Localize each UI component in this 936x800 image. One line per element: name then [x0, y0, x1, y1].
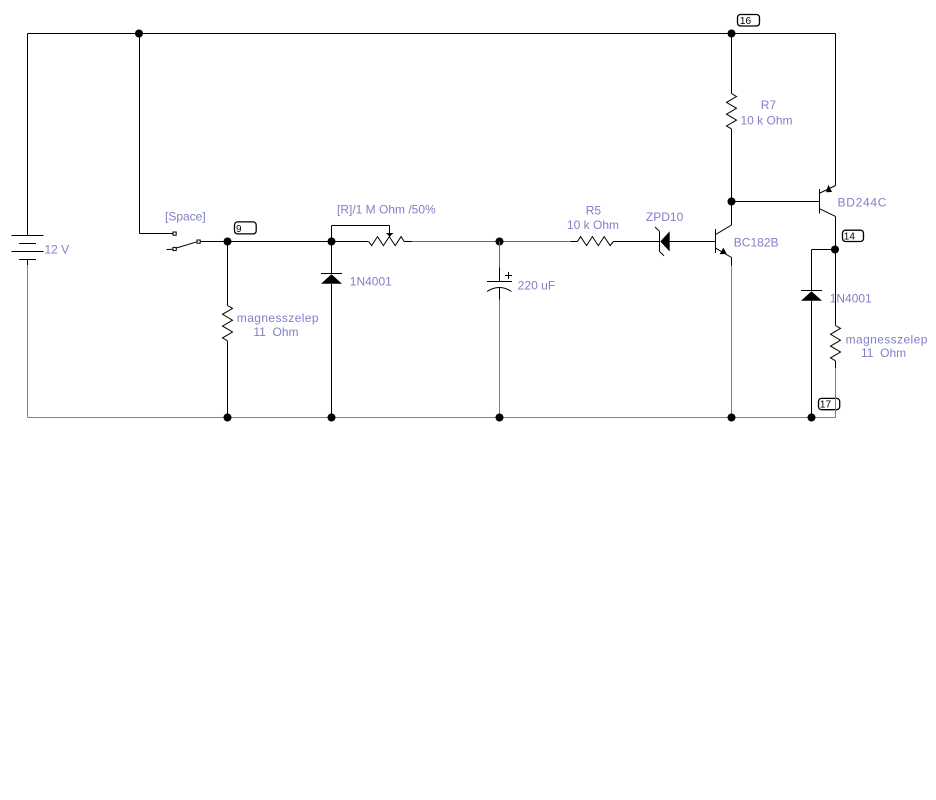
svg-text:11 Ohm: 11 Ohm [253, 325, 298, 339]
svg-text:17: 17 [820, 400, 832, 411]
R5 labels [567, 203, 619, 232]
wire Q1 emitter purple to bus [731, 266, 733, 418]
wire pot right lead black [404, 241, 412, 243]
wire node 9 down to solenoid [227, 242, 229, 306]
svg-text:10 k Ohm: 10 k Ohm [741, 114, 793, 128]
junction bus x227 [224, 414, 232, 422]
Q2 label BD244C [838, 196, 888, 210]
wire cap bottom purple [499, 300, 501, 418]
node 14 label box [843, 230, 864, 242]
wire solenoid right bottom black [835, 361, 837, 368]
magnesszelep right labels [846, 332, 928, 360]
diode D2 value label [830, 291, 872, 305]
wire solenoid right top lead [835, 250, 837, 326]
svg-text:[Space]: [Space] [165, 210, 206, 224]
wire R5 to zener [613, 241, 659, 243]
svg-text:BC182B: BC182B [734, 235, 779, 249]
node 16 label box [738, 15, 760, 28]
junction pot/diode node [328, 238, 336, 246]
junction R7 bottom node [728, 198, 736, 206]
R7 labels [741, 98, 793, 128]
potentiometer R zigzag [369, 237, 405, 246]
svg-text:magnesszelep: magnesszelep [846, 332, 928, 346]
svg-text:magnesszelep: magnesszelep [237, 311, 319, 325]
wire Q2 emitter up to top bus [835, 34, 837, 186]
wire battery bottom (purple) [27, 265, 29, 418]
svg-text:9: 9 [236, 224, 242, 235]
diode D1 1N4001 [321, 274, 342, 284]
wire D2 bottom to bus [811, 301, 813, 418]
svg-text:12 V: 12 V [45, 243, 70, 257]
wire pot left lead [332, 241, 369, 243]
wire bottom bus (purple) [28, 417, 836, 419]
wire Q1 emitter down black [731, 258, 733, 266]
junction bus x499 [496, 414, 504, 422]
magnesszelep left label [237, 311, 319, 339]
wire R5 left lead [571, 241, 578, 243]
junction bus x731 [728, 414, 736, 422]
wire zener to Q1 base [670, 241, 716, 243]
node junction top-left [135, 30, 143, 38]
junction capacitor node [496, 238, 504, 246]
resistor R5 zigzag [578, 237, 614, 246]
node 9 label box [235, 222, 257, 235]
battery V1 [12, 34, 44, 266]
svg-text:[R]/1 M Ohm /50%: [R]/1 M Ohm /50% [337, 202, 436, 216]
svg-text:16: 16 [740, 16, 752, 27]
wire D2 top lead [811, 250, 813, 291]
wire top bus [28, 33, 836, 35]
junction bus x331 [328, 414, 336, 422]
wire cap top lead black [499, 268, 501, 282]
wire Q1 collector up [731, 202, 733, 226]
wire R7 bottom lead [731, 129, 733, 202]
transistor Q2 BD244C [820, 185, 836, 217]
svg-text:R5: R5 [586, 203, 602, 217]
diode D2 1N4001 [801, 291, 822, 301]
node 17 label box [819, 398, 840, 410]
capacitor value label 220 uF [518, 279, 555, 293]
capacitor C1 220 uF [487, 272, 512, 300]
wire switch branch vertical [140, 34, 174, 234]
wire diode D1 bottom to bus [331, 284, 333, 418]
diode D1 value label [350, 275, 392, 289]
svg-text:BD244C: BD244C [838, 196, 888, 210]
zener label ZPD10 [646, 210, 684, 224]
wire Q2 base [732, 201, 820, 203]
wire switch to node 9 [200, 241, 227, 243]
potentiometer R wiper loop [332, 226, 394, 242]
switch key label [Space] [165, 210, 206, 224]
wire cap top lead magenta [499, 242, 501, 268]
transistor Q1 BC182B [716, 225, 732, 258]
svg-text:220 uF: 220 uF [518, 279, 555, 293]
wire Q2 collector down to node 14 [835, 216, 837, 249]
svg-text:ZPD10: ZPD10 [646, 210, 684, 224]
resistor magnesszelep left 11 Ohm [223, 306, 233, 341]
node 9 junction [224, 238, 232, 246]
svg-text:14: 14 [844, 232, 856, 243]
Q1 label BC182B [734, 235, 779, 249]
wire diode D1 top lead [331, 242, 333, 274]
zener diode ZPD10 [655, 227, 670, 256]
svg-text:1N4001: 1N4001 [350, 275, 392, 289]
wire magenta pot to R5 [412, 241, 571, 243]
svg-text:R7: R7 [761, 98, 777, 112]
wire R7 top lead [731, 34, 733, 94]
wire node14 left to D2 [812, 249, 836, 251]
potentiometer label [R]/1 M Ohm /50% [337, 202, 436, 216]
svg-text:1N4001: 1N4001 [830, 291, 872, 305]
switch S1 [Space] [167, 232, 201, 251]
battery value label 12 V [45, 243, 70, 257]
svg-text:10 k Ohm: 10 k Ohm [567, 218, 619, 232]
node 14 junction [831, 246, 839, 254]
resistor R7 zigzag [727, 94, 737, 129]
wire node 9 to pot junction [228, 241, 332, 243]
junction bus x811 [808, 414, 816, 422]
wire solenoid right bottom purple [835, 368, 837, 418]
svg-text:11 Ohm: 11 Ohm [861, 346, 906, 360]
resistor magnesszelep right 11 Ohm [831, 326, 841, 361]
wire solenoid left to bus [227, 341, 229, 418]
node junction node 16 [728, 30, 736, 38]
